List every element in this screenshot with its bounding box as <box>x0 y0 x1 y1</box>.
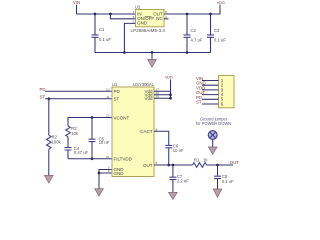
node Vdd bus junction b <box>169 97 172 100</box>
ground (jumper) <box>208 147 217 154</box>
regulator U2 <box>131 4 166 33</box>
node C1 junction <box>94 13 97 16</box>
svg-text:0.47 uF: 0.47 uF <box>74 150 89 155</box>
capacitor C3 <box>207 14 226 53</box>
svg-text:PD: PD <box>114 89 121 94</box>
svg-text:FILTVDD: FILTVDD <box>114 157 133 162</box>
jumper X1 circle <box>208 131 217 140</box>
svg-text:0.1 uF: 0.1 uF <box>222 179 234 184</box>
svg-text:OUT: OUT <box>230 160 239 165</box>
svg-text:23: 23 <box>106 114 110 118</box>
node U2 GND rail junction <box>123 51 126 54</box>
wire U2 OUT to VDD <box>164 5 220 14</box>
svg-text:NC: NC <box>156 16 163 21</box>
ground (top rail) <box>148 53 157 68</box>
node ground symbol junction <box>151 51 154 54</box>
svg-text:10k: 10k <box>71 131 79 136</box>
svg-text:0.1 uF: 0.1 uF <box>214 38 226 43</box>
wire ground rail <box>95 52 211 54</box>
node C6 OUT junction <box>167 164 170 167</box>
svg-text:VIN: VIN <box>73 0 80 5</box>
wire U1 GND pins to ground <box>99 170 112 189</box>
wire Vdd pins to VDD bus <box>154 80 171 99</box>
svg-text:0.1 uF: 0.1 uF <box>99 37 111 42</box>
svg-text:GND: GND <box>137 20 148 25</box>
svg-text:24: 24 <box>106 155 110 159</box>
wire jumper stem <box>212 139 214 147</box>
svg-text:PD: PD <box>40 87 46 92</box>
svg-text:C1: C1 <box>99 27 105 32</box>
wire VIN to U2 IN <box>77 13 136 15</box>
wire VCONT net <box>68 118 112 126</box>
svg-text:1: 1 <box>133 10 135 14</box>
node C8 junction <box>216 164 219 167</box>
svg-text:U1: U1 <box>112 82 118 87</box>
wire ST to U1 <box>45 98 112 100</box>
wire U1 OUT to R1 <box>154 164 193 166</box>
svg-text:U2: U2 <box>135 4 141 9</box>
svg-text:GND: GND <box>114 171 125 176</box>
node R2 junction <box>47 97 50 100</box>
resistor R2 <box>47 99 62 176</box>
svg-text:2: 2 <box>133 20 135 24</box>
capacitor C7 <box>169 165 189 192</box>
ground (C8) <box>213 189 222 197</box>
wire JP1 pin4 <box>202 94 219 96</box>
wire R1 to OUT <box>207 164 234 166</box>
ground (R2) <box>44 175 53 183</box>
svg-text:ST: ST <box>40 95 46 100</box>
wire JP1 pin3 <box>202 89 219 91</box>
svg-text:VDD: VDD <box>217 0 225 5</box>
svg-text:for POWER DOWN: for POWER DOWN <box>196 121 232 126</box>
svg-text:C3: C3 <box>214 28 220 33</box>
svg-text:3: 3 <box>108 169 110 173</box>
svg-text:4.7 uF: 4.7 uF <box>191 38 203 43</box>
svg-text:VCONT: VCONT <box>114 115 130 120</box>
svg-text:2.2 nF: 2.2 nF <box>177 179 189 184</box>
node C2 rail junction <box>186 51 189 54</box>
svg-text:VDD: VDD <box>165 75 173 79</box>
wire JP1 pin2 <box>202 84 219 86</box>
note ground jumper text <box>196 116 232 126</box>
wire JP1 pin1 <box>202 80 219 82</box>
header JP1 <box>219 75 235 107</box>
svg-text:C2: C2 <box>191 28 197 33</box>
ground (U1) <box>95 189 104 196</box>
node ON/OFF junction <box>109 13 112 16</box>
capacitor C5 <box>89 118 110 159</box>
node C3 junction <box>209 13 212 16</box>
capacitor C1 <box>92 14 112 53</box>
resistor R3 <box>66 126 79 137</box>
ground (C7) <box>169 192 178 199</box>
svg-text:LISY300AL: LISY300AL <box>133 82 155 87</box>
capacitor C8 <box>214 165 234 189</box>
capacitor C4 <box>65 137 89 159</box>
svg-text:100k: 100k <box>52 139 62 144</box>
svg-text:11: 11 <box>106 95 109 99</box>
svg-text:10: 10 <box>106 87 110 91</box>
svg-text:10 nF: 10 nF <box>99 140 110 145</box>
capacitor C6 <box>165 143 184 165</box>
node C2 junction <box>186 13 189 16</box>
svg-text:ST: ST <box>196 100 202 105</box>
wire JP1 pin6 <box>202 103 219 105</box>
svg-text:10 nF: 10 nF <box>173 148 184 153</box>
node C7 junction <box>172 164 175 167</box>
svg-text:ST: ST <box>114 97 120 102</box>
svg-text:CACT: CACT <box>140 129 153 134</box>
svg-text:OUT: OUT <box>143 163 153 168</box>
wire PD to U1 <box>45 90 112 92</box>
wire U2 GND to rail <box>124 23 135 52</box>
capacitor C2 <box>184 14 203 53</box>
gyro U1 <box>112 82 155 177</box>
node C5 top junction <box>91 116 94 119</box>
U2 NC stub <box>164 18 169 20</box>
node C5 bottom junction <box>91 157 94 160</box>
node Vdd bus junction a <box>169 93 172 96</box>
wire ON/OFF link <box>110 14 135 19</box>
svg-text:3: 3 <box>133 15 135 19</box>
resistor R1 <box>193 157 209 167</box>
node U1 GND junction <box>98 172 101 175</box>
wire CACT to C6 <box>154 131 169 145</box>
wire JP1 pin5 <box>202 98 219 100</box>
svg-text:R1: R1 <box>194 157 200 162</box>
svg-text:Vdd: Vdd <box>144 96 153 101</box>
wire VIN stem <box>76 5 78 14</box>
svg-text:LP2985AIM5-3.3: LP2985AIM5-3.3 <box>131 28 166 33</box>
wire FILTVDD net <box>68 158 112 160</box>
